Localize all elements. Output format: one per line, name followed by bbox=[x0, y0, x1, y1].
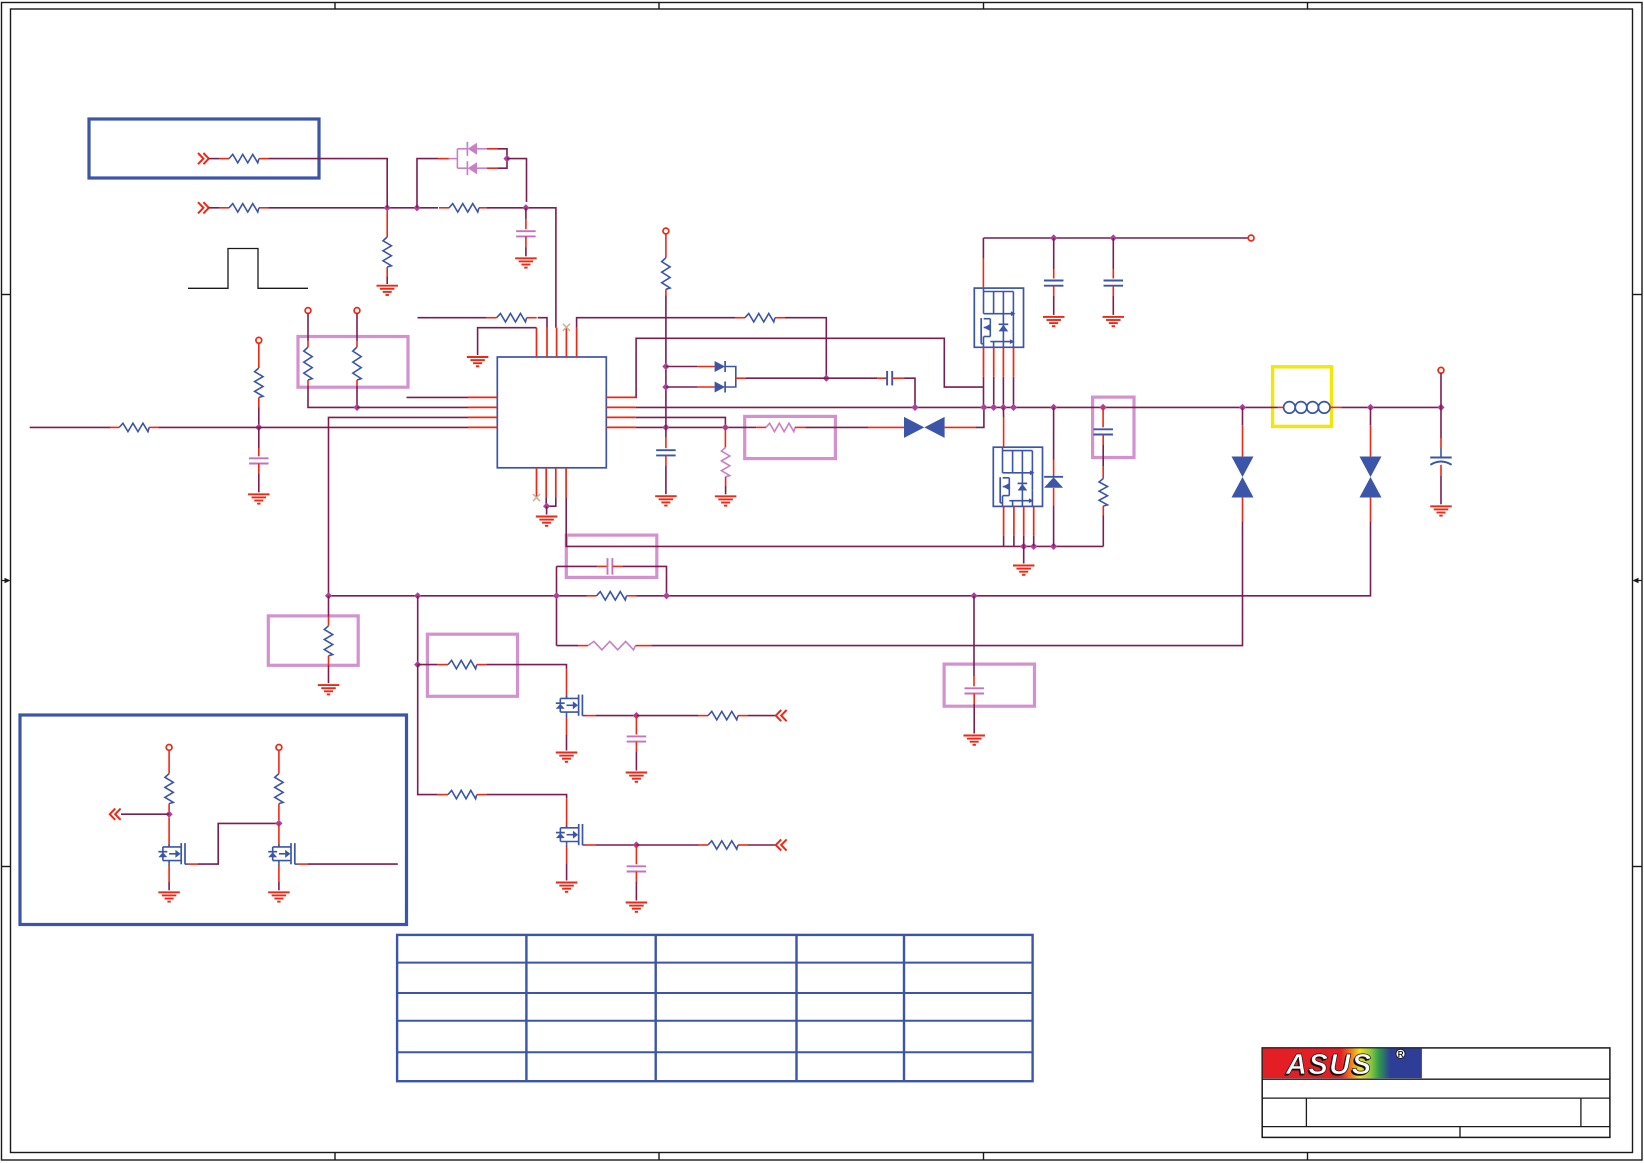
title block divider date cell bbox=[1459, 1127, 1461, 1138]
ground pins B2 B3 bbox=[536, 517, 558, 526]
wire C6 left red bbox=[877, 377, 887, 379]
wire pinT5 feedback bbox=[577, 318, 735, 328]
border zone tick bottom 4 bbox=[1307, 1153, 1309, 1161]
transistor Q2 bbox=[556, 824, 586, 845]
wire Q4 src bbox=[278, 882, 280, 890]
wire R13 bot red bbox=[1102, 506, 1104, 516]
wire R9 to pinT2 bbox=[538, 318, 547, 328]
wire C10 bot bbox=[635, 752, 637, 771]
wire to chev 1 bbox=[748, 715, 776, 717]
wire TVS2 top red bbox=[1242, 425, 1244, 456]
wire C12 bot bbox=[1440, 476, 1442, 505]
wire D2D3 out red bbox=[736, 377, 746, 379]
wire sense net bbox=[329, 595, 587, 597]
capacitor C9 bbox=[964, 688, 984, 693]
ground C9 bbox=[963, 736, 985, 745]
junction Q1 out bbox=[633, 712, 640, 719]
resistor R13 bbox=[1099, 479, 1107, 507]
controller IC U1 body bbox=[497, 357, 606, 468]
wire R17 to Q2 gate bbox=[487, 795, 567, 799]
wire PM1 lead1 bbox=[983, 377, 985, 408]
wire R12 red bbox=[725, 477, 727, 486]
inductor L1 bbox=[1284, 402, 1330, 414]
wire comp red right bbox=[636, 645, 652, 647]
pink highlight box C (snubber cap) bbox=[1093, 397, 1134, 457]
border zone tick bottom 3 bbox=[983, 1153, 985, 1161]
wire C3 bot red bbox=[665, 455, 667, 466]
ground C11 bbox=[626, 903, 648, 912]
wire D4 top bbox=[1053, 407, 1055, 459]
wire TVS1 lead red bbox=[868, 426, 904, 428]
wire pin L3 net bbox=[329, 417, 469, 595]
wire R11 to TVS1 bbox=[805, 426, 868, 428]
border zone tick left 1 bbox=[2, 294, 11, 296]
transistor Q4 bbox=[268, 843, 298, 864]
ground R20 bbox=[318, 685, 340, 694]
title block divider size cell bbox=[1305, 1098, 1307, 1127]
junction bus2 d4 bbox=[1030, 543, 1037, 550]
border zone tick bottom 1 bbox=[334, 1153, 336, 1161]
wire T2 red bbox=[307, 341, 309, 347]
border centre arrow left bbox=[2, 578, 11, 583]
wire Q3 src red bbox=[168, 866, 170, 883]
wire Q3 src blue bbox=[168, 863, 170, 865]
wire Q2 src blue bbox=[566, 844, 568, 846]
ground C1 bbox=[515, 258, 537, 267]
resistor R16 bbox=[448, 660, 477, 668]
wire T2 lead bbox=[307, 313, 309, 341]
wire R11 red right bbox=[795, 426, 805, 428]
wire C5 top red bbox=[1112, 269, 1114, 279]
wire Q3 src bbox=[168, 882, 170, 890]
TVS diode Z3 bbox=[1360, 457, 1382, 498]
transistor Q1 bbox=[556, 695, 586, 716]
wire C8 left drop bbox=[556, 566, 558, 645]
wire L3 branch red bbox=[328, 617, 330, 626]
wire pinB3 gnd bbox=[547, 497, 556, 506]
junction V+/C4 bbox=[1050, 234, 1057, 241]
wire C1 top lead red bbox=[525, 219, 527, 229]
wire R12 gnd bbox=[725, 486, 727, 494]
diode D2 bbox=[715, 361, 726, 372]
wire TVS1 right red bbox=[945, 426, 976, 428]
wire chev to Q3 bbox=[121, 813, 169, 815]
wire C12 top blue bbox=[1440, 448, 1442, 457]
wire net2 stub bbox=[209, 207, 219, 209]
wire TVS2 top bbox=[1242, 407, 1244, 425]
junction sense/R16 branch bbox=[414, 592, 421, 599]
junction R22/Q4 gate bbox=[275, 820, 282, 827]
resistor R4 bbox=[383, 237, 391, 267]
resistor R9 bbox=[487, 314, 537, 322]
resistor R12 (pink) bbox=[721, 447, 729, 476]
wire C5 top bbox=[1112, 238, 1114, 269]
junction D2 anode bbox=[662, 363, 669, 370]
junction V+/C5 bbox=[1110, 234, 1117, 241]
wire PM2 lead4 bbox=[1033, 536, 1035, 547]
wire bus main bbox=[636, 406, 1278, 408]
border zone tick bottom 2 bbox=[658, 1153, 660, 1161]
wire C11 top red bbox=[635, 845, 637, 864]
ASUS logo bbox=[1263, 1048, 1422, 1082]
wire comp net right bbox=[651, 528, 1242, 646]
resistor R11 (pink) bbox=[766, 423, 795, 431]
ground Q3 bbox=[158, 892, 180, 901]
junction D1 anodes bbox=[503, 155, 510, 162]
wire C2 bot red bbox=[258, 464, 260, 475]
border zone tick right 2 bbox=[1633, 866, 1643, 868]
junction R16 node bbox=[414, 661, 421, 668]
capacitor C3 bbox=[656, 450, 676, 455]
wire R4 top lead red bbox=[386, 211, 388, 237]
wire pinL2 net bbox=[357, 406, 468, 408]
ground Q1 bbox=[556, 753, 578, 762]
wire PM2 lead1 bbox=[1003, 536, 1005, 547]
IC U1 pin stubs right bbox=[606, 397, 635, 427]
wire R16 feed bbox=[418, 664, 438, 666]
wire D2 D3 cathode bracket bbox=[725, 367, 735, 388]
title block divider rev cell bbox=[1580, 1098, 1582, 1127]
junction bus/lead4 bbox=[1010, 404, 1017, 411]
junction bus/lead3 bbox=[1000, 404, 1007, 411]
ground C5 bbox=[1103, 317, 1125, 326]
wire R4 bot red bbox=[386, 267, 388, 277]
wire net2 row right bbox=[487, 208, 556, 328]
terminal T6 bbox=[1438, 367, 1444, 373]
wire net2 drop red b bbox=[416, 202, 418, 208]
wire main input net bbox=[30, 426, 111, 428]
ground bus2 bbox=[1013, 566, 1034, 575]
wire pinR3 jog bbox=[636, 417, 726, 427]
wire C6 left bbox=[826, 377, 877, 379]
wire Q1 src red bbox=[566, 717, 568, 735]
wire pinB4 to bus2 bbox=[566, 497, 1103, 546]
wire D4 bot red bbox=[1053, 488, 1055, 506]
wire comp net bbox=[557, 645, 579, 647]
ground Q4 bbox=[268, 892, 290, 901]
wire TVS2 bot bbox=[1242, 521, 1244, 527]
wire R5 bot red bbox=[258, 398, 260, 408]
resistor R17 bbox=[448, 790, 477, 798]
wire PM2 feed bbox=[1002, 407, 1004, 417]
wire Q4 src blue bbox=[278, 863, 280, 865]
wire R6 red bbox=[307, 380, 309, 386]
resistor R21 bbox=[165, 774, 173, 804]
power MOSFET block PM1 bbox=[974, 288, 1023, 347]
border centre arrow right bbox=[1633, 578, 1643, 583]
ground C12 bbox=[1430, 506, 1452, 515]
wire D4 bot bbox=[1053, 506, 1055, 546]
wire R16 to Q1 gate bbox=[487, 665, 567, 669]
power chevron 2 bbox=[198, 202, 209, 213]
capacitor C8 bbox=[608, 558, 613, 575]
resistor R3 bbox=[439, 204, 489, 212]
resistor R10 bbox=[735, 314, 785, 322]
wire pinT1 to ground bbox=[478, 328, 537, 355]
wire R9 left bbox=[418, 317, 487, 319]
wire R16 red left bbox=[438, 664, 448, 666]
wire C12 top bbox=[1440, 407, 1442, 438]
wire C4 bot bbox=[1053, 296, 1055, 315]
wire PM1 lead4 bbox=[1013, 377, 1015, 408]
wire T4 red bbox=[168, 750, 170, 773]
wire pinR4 net bbox=[636, 426, 745, 428]
wire C6 to bus bbox=[904, 378, 915, 407]
wire R16 branch bbox=[417, 596, 419, 665]
ground C3 bbox=[655, 496, 677, 505]
wire C3 top m bbox=[665, 427, 667, 437]
terminal T8 bbox=[1248, 235, 1254, 241]
wire C8 right red bbox=[613, 565, 623, 567]
wire TVS3 bot bbox=[1370, 521, 1372, 528]
wire R7 red bbox=[356, 380, 358, 386]
wire L1 right red bbox=[1330, 406, 1341, 408]
IC U1 pin stubs top bbox=[537, 328, 577, 357]
junction out/C12 bbox=[1437, 404, 1444, 411]
wire PM1 top red bbox=[982, 259, 984, 289]
wire T3 lead bbox=[356, 313, 358, 341]
junction sense/C8b bbox=[663, 592, 670, 599]
wire R13 top red bbox=[1102, 466, 1104, 478]
wire T3 red bbox=[356, 341, 358, 347]
terminal T2 bbox=[305, 308, 311, 314]
wire R10 to C6 node bbox=[785, 318, 826, 379]
off-page connector << enable bbox=[110, 809, 121, 820]
border zone tick right 1 bbox=[1633, 294, 1643, 296]
wire T7 red bbox=[665, 234, 667, 258]
resistor R20 (pulldown) bbox=[324, 626, 332, 656]
no-connect X pin T4 bbox=[563, 324, 570, 331]
wire R13 bot bbox=[1102, 516, 1104, 547]
wire main input to IC bbox=[159, 426, 468, 428]
junction net2/diode pair bbox=[413, 204, 420, 211]
wire C12 bot red bbox=[1440, 465, 1442, 476]
junction bus/D4 bbox=[1050, 404, 1057, 411]
wire Q2 out bbox=[596, 844, 636, 846]
title block row line 3 bbox=[1262, 1126, 1610, 1128]
resistor R18 bbox=[698, 711, 748, 719]
resistor R14 bbox=[587, 592, 637, 600]
wire bus2 gnd stub bbox=[1023, 546, 1025, 563]
border zone tick top 4 bbox=[1307, 3, 1309, 10]
wire D1a anode red bbox=[487, 148, 497, 150]
junction pinL2 net bbox=[353, 404, 360, 411]
capacitor C1 bbox=[516, 231, 536, 236]
junction Q2 out bbox=[633, 841, 640, 848]
border zone tick top 1 bbox=[334, 3, 336, 10]
logic pulse symbol bbox=[188, 249, 308, 289]
wire gnd stub pinB2 bbox=[546, 506, 548, 514]
off-page connector << out2 bbox=[776, 839, 787, 850]
wire sense net right bbox=[637, 528, 1371, 596]
title block row line 2 bbox=[1262, 1097, 1610, 1099]
wire to chev 2 bbox=[748, 844, 776, 846]
wire C12 top red bbox=[1440, 438, 1442, 448]
wire R11 feed bbox=[745, 426, 756, 428]
wire C3 top red bbox=[665, 437, 667, 448]
wire net1 stub bbox=[209, 158, 219, 160]
wire L1 left red bbox=[1278, 406, 1284, 408]
ground C2 bbox=[248, 494, 269, 503]
capacitor C4 bbox=[1044, 281, 1064, 286]
wire C11 bot bbox=[635, 882, 637, 901]
wire pinR1 up-over bbox=[636, 338, 984, 397]
junction main/R5 bbox=[255, 424, 262, 431]
wire Q2 out red bbox=[586, 844, 596, 846]
IC U1 pin stubs left bbox=[468, 397, 497, 427]
wire R20 red bbox=[328, 656, 330, 666]
wire C10 bot red bbox=[635, 742, 637, 752]
wire C4 bot red bbox=[1053, 286, 1055, 296]
junction net2/R4 bbox=[384, 204, 391, 211]
wire D4 top red bbox=[1053, 460, 1055, 477]
resistor R8 (input) bbox=[109, 423, 159, 431]
svg-text:ASUS: ASUS bbox=[1285, 1049, 1373, 1081]
junction C6 node bbox=[823, 375, 830, 382]
capacitor C2 bbox=[249, 458, 268, 463]
IC U1 pin stubs bottom bbox=[537, 468, 567, 498]
wire PM2 lead3 bbox=[1023, 536, 1025, 547]
wire TVS2 bot red bbox=[1242, 498, 1244, 522]
wire PM1 lead2 bbox=[993, 377, 995, 408]
pink highlight box D (feedback cap) bbox=[566, 535, 657, 577]
pink highlight box E (gate resistor 1) bbox=[427, 634, 517, 696]
wire Q4 out bbox=[308, 863, 398, 865]
terminal T7 bbox=[663, 228, 669, 234]
wire Q1 gate red bbox=[566, 669, 568, 699]
wire R17 red left bbox=[438, 794, 448, 796]
terminal T5 bbox=[276, 745, 282, 751]
wire PM2 lead2 bbox=[1013, 536, 1015, 547]
junction netB/R11 bbox=[722, 424, 729, 431]
wire R17 red right bbox=[477, 794, 487, 796]
wire Q2 src red bbox=[566, 847, 568, 865]
diode D1a bbox=[467, 142, 477, 156]
junction sense/C8a bbox=[553, 592, 560, 599]
power chevron 1 bbox=[198, 153, 209, 164]
wire D1b anode red bbox=[487, 167, 497, 169]
no-connect X pin B1 bbox=[533, 494, 540, 501]
wire PM1 top lead bbox=[982, 238, 984, 259]
junction bus/TVS2 bbox=[1239, 404, 1246, 411]
wire Q2 gate red bbox=[566, 798, 568, 828]
capacitor C6 bbox=[887, 371, 892, 386]
TVS diode Z2 bbox=[1232, 457, 1254, 498]
title block row line 1 bbox=[1262, 1078, 1610, 1080]
wire Q4 src red bbox=[278, 866, 280, 883]
wire D1 anode bracket bbox=[497, 149, 507, 168]
border zone tick top 3 bbox=[983, 3, 985, 10]
capacitor C7 bbox=[1093, 429, 1113, 434]
TVS diode Z1 bbox=[904, 417, 945, 438]
resistor R5 bbox=[255, 368, 263, 398]
blue callout box top-left bbox=[89, 119, 319, 178]
wire R4 bot bbox=[386, 277, 388, 284]
wire R22 red bbox=[278, 804, 280, 820]
wire comp red left bbox=[578, 645, 588, 647]
wire C7 mid bbox=[1102, 445, 1104, 466]
wire PM2 lead stubs red bbox=[1004, 506, 1034, 536]
wire R21 red bbox=[168, 804, 170, 811]
wire C2 top bbox=[258, 427, 260, 448]
junction sense/C9 bbox=[970, 592, 977, 599]
wire Q3 gate red bbox=[168, 817, 170, 847]
ground pin T1 bbox=[467, 357, 489, 366]
wire V+ rail bbox=[983, 237, 1248, 239]
resistor R9b bbox=[662, 258, 670, 290]
wire PM1 lead stubs red bbox=[984, 347, 1014, 377]
wire D1a anode pink bbox=[477, 148, 487, 150]
junction net2/C1 bbox=[522, 204, 529, 211]
junction bus/C7 bbox=[1100, 404, 1107, 411]
pink highlight box F (pulldown resistor) bbox=[268, 616, 358, 665]
ground R4 bbox=[376, 286, 398, 295]
resistor R15 (pink) bbox=[588, 641, 636, 649]
junction bus/C6 bbox=[911, 404, 918, 411]
wire Q4 gate red bbox=[278, 823, 280, 847]
dual diode D1 (pink, common cathode) bbox=[449, 149, 468, 168]
svg-text:R: R bbox=[1398, 1050, 1404, 1059]
pink highlight box A (divider resistors) bbox=[298, 337, 408, 388]
wire C1 bot lead red bbox=[525, 236, 527, 247]
power MOSFET block PM2 bbox=[993, 447, 1042, 506]
wire L3 branch bbox=[328, 596, 330, 617]
wire PM1 lead3 bbox=[1002, 377, 1004, 408]
wire PM2 feed red bbox=[1003, 418, 1005, 448]
wire TVS3 top bbox=[1370, 407, 1372, 425]
wire T6 lead bbox=[1440, 373, 1442, 407]
wire C8 node bbox=[557, 565, 598, 567]
wire C8 to right bbox=[623, 566, 667, 595]
wire R6 to pin L2 bbox=[308, 386, 357, 407]
pink highlight box B (series resistor) bbox=[745, 416, 836, 458]
wire C10 top red bbox=[635, 716, 637, 735]
wire pin L1 net bbox=[407, 396, 469, 398]
wire C4 top red bbox=[1053, 269, 1055, 279]
diode D4 bbox=[1044, 477, 1063, 488]
wire R12 top red bbox=[724, 427, 726, 447]
junction netB/vert bbox=[662, 424, 669, 431]
wire R9b red bbox=[665, 289, 667, 295]
wire Q1 out 2 bbox=[636, 715, 698, 717]
wire pinB2 gnd bbox=[545, 497, 547, 506]
wire D2 red bbox=[697, 366, 715, 368]
wire C9 top bbox=[973, 596, 975, 676]
capacitor C10 bbox=[627, 736, 647, 741]
wire D2D3 out bbox=[746, 377, 826, 379]
wire C5 bot red bbox=[1112, 286, 1114, 296]
wire C7 top red bbox=[1102, 407, 1104, 427]
border zone tick left 2 bbox=[2, 866, 11, 868]
capacitor C12 (polarized) bbox=[1430, 458, 1452, 465]
pink highlight box G (output cap) bbox=[944, 664, 1034, 706]
wire D1b anode pink bbox=[477, 167, 487, 169]
wire C11 bot red bbox=[635, 872, 637, 883]
wire C8 left red bbox=[597, 565, 607, 567]
wire TVS3 top red bbox=[1370, 425, 1372, 456]
capacitor C11 bbox=[627, 866, 647, 871]
wire TVS1 to bus bbox=[976, 407, 984, 427]
wire C9 bot bbox=[973, 704, 975, 734]
wire D3 red bbox=[697, 386, 715, 388]
wire C9 bot red bbox=[973, 694, 975, 705]
ground C4 bbox=[1043, 317, 1065, 326]
resistor R7 bbox=[353, 347, 361, 380]
wire C2 bot bbox=[258, 474, 260, 492]
wire R16 branch 2 bbox=[418, 665, 438, 795]
wire net1 to corner bbox=[269, 159, 388, 202]
junction out/TVS3 bbox=[1367, 404, 1374, 411]
